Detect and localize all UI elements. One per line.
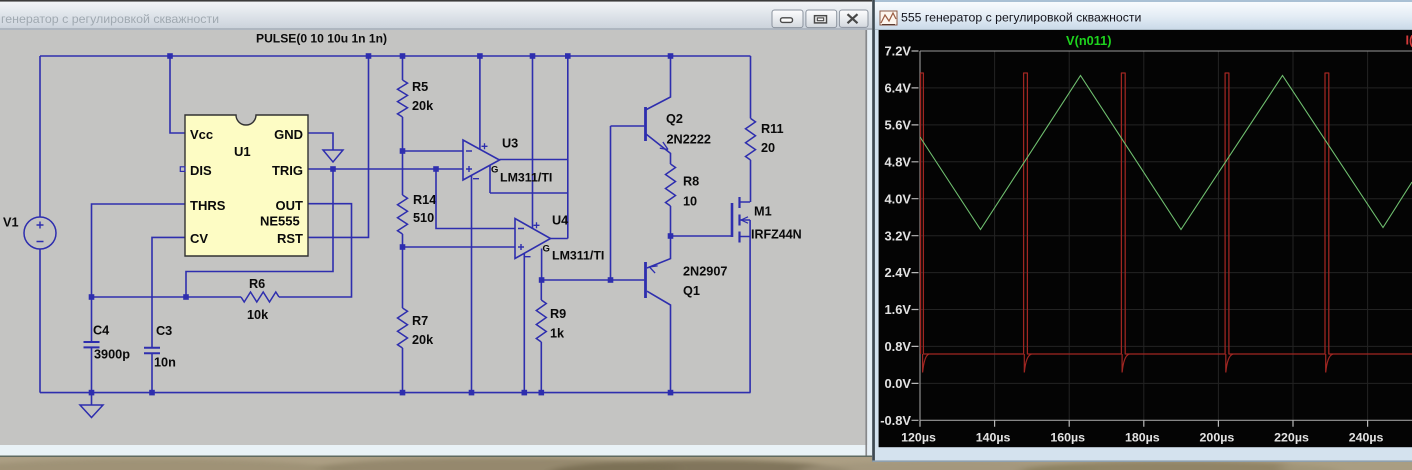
wire: timing node to R6 left	[92, 296, 242, 298]
svg-text:NE555: NE555	[260, 214, 300, 229]
wire: TRIG net down to U4 minus input	[436, 169, 515, 229]
svg-text:200µs: 200µs	[1200, 431, 1235, 445]
wire: R8/Q1 node to M1 gate	[671, 235, 733, 237]
minimize button	[772, 10, 803, 28]
svg-text:PULSE(0 10 10u 1n 1n): PULSE(0 10 10u 1n 1n)	[256, 32, 387, 46]
wire: VCC to U4 V+ pin	[532, 56, 534, 229]
green trace: triangle waveform V(n011)	[920, 76, 1412, 230]
svg-text:10n: 10n	[154, 356, 176, 370]
op-amp U3 LM311	[463, 137, 552, 185]
x axis labels	[901, 431, 1383, 445]
svg-text:140µs: 140µs	[976, 431, 1011, 445]
wire: VCC to U1 Vcc pin	[170, 56, 185, 133]
wire: U3 G pin stub	[489, 166, 491, 194]
wire: R6 right to U1 OUT pin	[279, 204, 352, 297]
svg-text:U3: U3	[502, 137, 518, 151]
svg-text:4.8V: 4.8V	[884, 154, 911, 169]
svg-text:G: G	[543, 244, 550, 255]
svg-text:6.4V: 6.4V	[884, 81, 911, 96]
svg-text:160µs: 160µs	[1050, 431, 1085, 445]
svg-text:R6: R6	[249, 277, 265, 291]
wire: M1 source to ground rail	[749, 237, 751, 393]
wire: bottom ground rail	[40, 392, 751, 394]
wire: C3 to ground rail	[151, 354, 153, 393]
svg-text:555 генератор с регулировкой с: 555 генератор с регулировкой скважности	[901, 11, 1142, 25]
junction dot R8/Q1/M1 gate node	[668, 233, 674, 239]
svg-text:0.8V: 0.8V	[884, 339, 911, 354]
transistor Q1 2N2907	[646, 236, 728, 393]
left window: schematic editor	[0, 0, 872, 457]
svg-text:Vcc: Vcc	[190, 127, 213, 142]
wire: VCC to U3 V+ pin	[479, 56, 481, 149]
ground symbol at U1 GND	[323, 150, 343, 162]
svg-text:U4: U4	[552, 214, 568, 228]
junction dots on divider column	[400, 148, 406, 250]
mosfet M1 IRFZ44N	[732, 197, 802, 243]
desktop background	[0, 440, 1412, 470]
svg-text:R11: R11	[761, 122, 784, 136]
svg-text:LM311/TI: LM311/TI	[552, 249, 604, 263]
wire: C4 to ground rail	[91, 348, 93, 393]
svg-text:3900p: 3900p	[94, 348, 130, 362]
right window title bar	[875, 2, 1412, 30]
plot axis border	[920, 51, 1412, 420]
resistor R7	[398, 308, 435, 348]
U1 DIS unconnected pin marker	[180, 167, 185, 172]
right window icon	[880, 11, 897, 25]
junction dot timing node	[89, 294, 189, 300]
svg-text:3.2V: 3.2V	[884, 228, 911, 243]
junction dots on VCC rail	[167, 53, 673, 59]
svg-text:GND: GND	[274, 127, 303, 142]
svg-text:0.0V: 0.0V	[884, 376, 911, 391]
wire: U3 V- pin to ground rail	[471, 176, 473, 393]
svg-text:7.2V: 7.2V	[884, 44, 911, 59]
wire: U4 V- pin to ground rail	[523, 254, 525, 393]
junction dots on TRIG net	[330, 166, 439, 172]
wire: TRIG net horizontal to U3 plus input	[308, 168, 463, 170]
wire: U4 G pin to base net	[541, 249, 543, 281]
ground symbol bottom rail	[80, 393, 103, 418]
capacitor C3	[144, 324, 176, 370]
svg-text:LM311/TI: LM311/TI	[500, 171, 552, 185]
svg-text:2N2222: 2N2222	[667, 133, 711, 147]
op-amp U4 LM311	[515, 214, 604, 263]
svg-text:Q1: Q1	[683, 284, 700, 298]
wire: U3 output loop to VCC rail	[490, 56, 568, 239]
left window right frame	[865, 30, 867, 456]
close button	[839, 10, 868, 27]
junction dots on ground rail	[89, 390, 674, 396]
svg-text:R14: R14	[413, 193, 436, 207]
wire: R14/R7 node to U4 plus input	[403, 246, 516, 248]
svg-text:R7: R7	[412, 314, 428, 328]
wire: THRS pin to timing node	[92, 204, 186, 297]
svg-text:C4: C4	[93, 324, 109, 338]
svg-text:V(n011): V(n011)	[1066, 33, 1112, 48]
svg-text:C3: C3	[156, 324, 172, 338]
svg-text:20k: 20k	[412, 333, 434, 347]
resistor R14	[398, 193, 437, 234]
svg-text:20k: 20k	[412, 99, 434, 113]
svg-text:1.6V: 1.6V	[884, 302, 911, 317]
svg-text:THRS: THRS	[190, 198, 226, 213]
y axis ticks	[912, 51, 919, 420]
wire: V1 minus to ground rail	[39, 249, 41, 393]
svg-text:120µs: 120µs	[901, 431, 936, 445]
wire: U1 GND pin to ground symbol	[308, 133, 333, 150]
wire: U1 RST pin up to VCC rail	[308, 56, 369, 237]
wire: TRIG down-around to timing node	[186, 169, 333, 297]
svg-text:220µs: 220µs	[1274, 431, 1309, 445]
resistor R9	[536, 280, 566, 393]
red trace: first pulse left edge	[920, 73, 922, 354]
svg-text:CV: CV	[190, 231, 208, 246]
red trace: switching undershoot spikes	[923, 354, 1333, 373]
svg-text:RST: RST	[277, 231, 303, 246]
wire: U1 CV pin to C3	[152, 237, 185, 347]
svg-text:IRFZ44N: IRFZ44N	[751, 228, 802, 242]
maximize (restore) button	[806, 10, 837, 28]
wire: resistor column R5/R14/R7 links	[402, 56, 404, 393]
svg-text:510: 510	[413, 211, 434, 225]
svg-text:10k: 10k	[247, 308, 269, 322]
svg-text:R5: R5	[412, 80, 428, 94]
svg-text:I(R11): I(R11)	[1406, 33, 1412, 48]
svg-text:OUT: OUT	[276, 198, 304, 213]
wire: R5/R14 node to U3 minus input	[403, 150, 464, 152]
resistor R5	[398, 80, 435, 117]
svg-text:V1: V1	[3, 216, 19, 230]
svg-text:4.0V: 4.0V	[884, 191, 911, 206]
svg-text:U1: U1	[234, 144, 251, 159]
svg-text:240µs: 240µs	[1349, 431, 1384, 445]
svg-text:TRIG: TRIG	[272, 163, 303, 178]
resistor R6	[241, 277, 279, 322]
svg-text:генератор с регулировкой скваж: генератор с регулировкой скважности	[1, 12, 219, 26]
wire: base net up to Q2 base	[611, 126, 645, 280]
transistor Q2 2N2222	[646, 56, 711, 164]
wire: VCC top rail	[40, 55, 751, 57]
junction dots base net	[539, 277, 614, 283]
svg-text:Q2: Q2	[666, 112, 683, 126]
right window: waveform viewer	[872, 0, 1412, 462]
svg-text:1k: 1k	[550, 327, 565, 341]
y axis labels	[880, 44, 911, 428]
resistor R11	[746, 56, 784, 202]
svg-text:180µs: 180µs	[1125, 431, 1160, 445]
svg-text:M1: M1	[754, 205, 772, 219]
svg-text:2N2907: 2N2907	[683, 265, 727, 279]
plot inner gridlines	[920, 51, 1412, 420]
capacitor C4	[84, 297, 131, 362]
svg-text:5.6V: 5.6V	[884, 117, 911, 132]
svg-text:R9: R9	[550, 307, 566, 321]
resistor R8	[666, 164, 700, 236]
svg-text:DIS: DIS	[190, 163, 212, 178]
svg-text:R8: R8	[683, 175, 699, 189]
wire: left rail down to V1	[39, 56, 41, 217]
svg-text:20: 20	[761, 141, 775, 155]
voltage source V1	[3, 216, 56, 250]
svg-text:-0.8V: -0.8V	[880, 413, 911, 428]
red trace: pulse waveform I(R11)	[920, 73, 1412, 354]
555 timer U1	[185, 115, 308, 256]
svg-text:2.4V: 2.4V	[884, 265, 911, 280]
svg-text:G: G	[491, 165, 498, 176]
svg-text:10: 10	[683, 195, 697, 209]
x axis ticks	[920, 420, 1368, 427]
wire: base net horizontal	[542, 279, 645, 281]
